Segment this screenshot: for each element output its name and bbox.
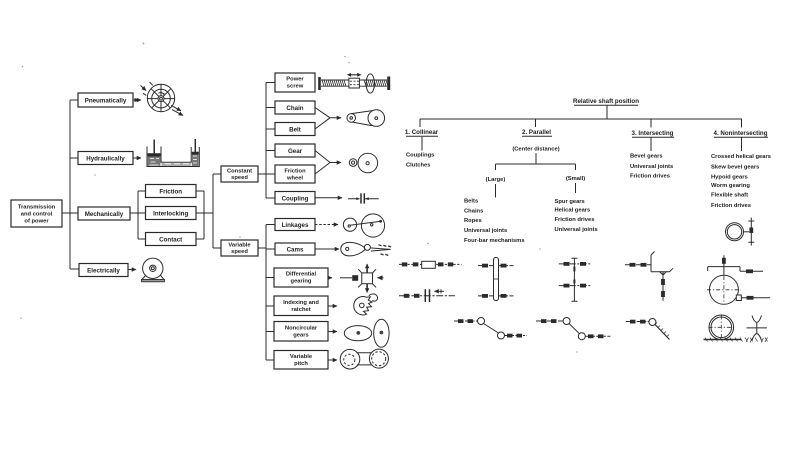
svg-text:Couplings: Couplings	[406, 152, 434, 158]
svg-text:Coupling: Coupling	[282, 195, 309, 202]
svg-text:Variable: Variable	[228, 243, 251, 249]
svg-text:gearing: gearing	[291, 279, 312, 285]
svg-text:(Center distance): (Center distance)	[512, 147, 559, 153]
svg-text:3. Intersecting: 3. Intersecting	[632, 130, 674, 137]
svg-text:Bevel gears: Bevel gears	[630, 154, 663, 160]
svg-text:Helical gears: Helical gears	[555, 208, 591, 214]
svg-text:Mechanically: Mechanically	[85, 211, 124, 218]
svg-text:Chain: Chain	[286, 105, 303, 112]
svg-text:4. Nonintersecting: 4. Nonintersecting	[714, 130, 768, 137]
svg-text:Flexible shaft: Flexible shaft	[711, 193, 748, 199]
svg-text:Electrically: Electrically	[87, 267, 120, 274]
svg-text:Skew bevel gears: Skew bevel gears	[711, 164, 759, 170]
svg-text:and control: and control	[21, 212, 53, 218]
svg-text:Indexing and: Indexing and	[283, 300, 319, 306]
svg-text:pitch: pitch	[294, 361, 308, 367]
svg-text:Hypoid gears: Hypoid gears	[711, 175, 748, 181]
svg-text:Variable: Variable	[290, 354, 313, 360]
svg-text:Friction: Friction	[159, 188, 182, 195]
svg-text:Pneumatically: Pneumatically	[85, 97, 127, 104]
svg-text:2. Parallel: 2. Parallel	[522, 129, 551, 136]
svg-text:Friction drives: Friction drives	[630, 173, 670, 179]
svg-text:Spur gears: Spur gears	[555, 199, 585, 205]
svg-text:Transmission: Transmission	[18, 205, 56, 211]
svg-text:speed: speed	[231, 175, 248, 181]
svg-text:Linkages: Linkages	[282, 222, 309, 229]
svg-text:(Small): (Small)	[566, 176, 585, 182]
svg-text:Friction drives: Friction drives	[555, 217, 595, 223]
svg-text:Constant: Constant	[227, 169, 252, 175]
svg-text:1. Collinear: 1. Collinear	[405, 129, 439, 136]
svg-text:Friction: Friction	[284, 168, 306, 174]
svg-text:Belt: Belt	[289, 126, 301, 133]
svg-text:speed: speed	[231, 249, 248, 255]
svg-text:screw: screw	[287, 84, 304, 90]
svg-text:Chains: Chains	[464, 209, 483, 215]
svg-text:Crossed helical gears: Crossed helical gears	[711, 154, 771, 160]
svg-text:Relative shaft position: Relative shaft position	[573, 98, 639, 105]
svg-text:Friction drives: Friction drives	[711, 203, 751, 209]
svg-text:Contact: Contact	[159, 236, 182, 243]
svg-text:Clutches: Clutches	[406, 162, 430, 168]
svg-text:Universal joints: Universal joints	[555, 227, 598, 233]
svg-text:Four-bar mechanisms: Four-bar mechanisms	[464, 238, 525, 244]
svg-text:Universal joints: Universal joints	[464, 228, 507, 234]
svg-text:Power: Power	[286, 77, 304, 83]
svg-text:Noncircular: Noncircular	[285, 325, 318, 331]
svg-text:Ropes: Ropes	[464, 218, 482, 224]
svg-text:Hydraulically: Hydraulically	[86, 155, 125, 162]
svg-text:Differential: Differential	[286, 272, 317, 278]
svg-text:Universal joints: Universal joints	[630, 164, 673, 170]
svg-text:(Large): (Large)	[486, 177, 506, 183]
svg-text:Cams: Cams	[287, 247, 304, 254]
svg-text:wheel: wheel	[286, 175, 303, 181]
svg-text:Gear: Gear	[288, 148, 303, 155]
svg-text:of power: of power	[24, 219, 49, 225]
svg-text:gears: gears	[293, 332, 308, 338]
svg-text:Worm gearing: Worm gearing	[711, 183, 750, 189]
svg-text:Interlocking: Interlocking	[153, 210, 188, 217]
svg-text:ratchet: ratchet	[291, 307, 310, 313]
svg-text:Belts: Belts	[464, 199, 478, 205]
